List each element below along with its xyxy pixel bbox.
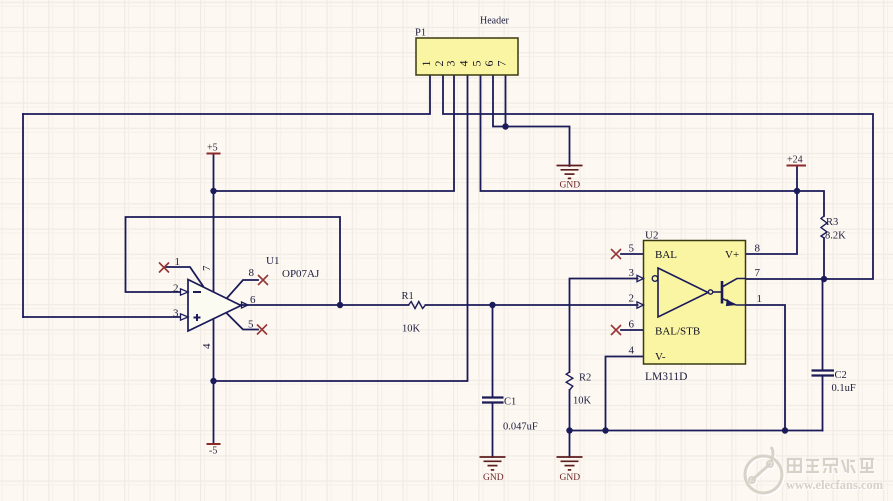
wire +5 stem to U1 pin7 (213, 154, 215, 291)
svg-text:BAL: BAL (655, 249, 677, 261)
svg-text:LM311D: LM311D (645, 371, 687, 383)
junction +5 node (210, 188, 216, 194)
wire left rail vertical (22, 114, 24, 317)
svg-text:GND: GND (483, 473, 504, 483)
svg-text:GND: GND (560, 181, 581, 191)
U1 plus sign (194, 314, 201, 321)
svg-text:P1: P1 (415, 28, 426, 39)
ground GND3 under C1 (480, 457, 506, 470)
svg-text:2: 2 (629, 293, 635, 305)
wire U1 pin1 stub (166, 267, 203, 286)
pin arrow U1.2 (181, 289, 189, 295)
watermark logo elecfans (746, 448, 783, 494)
wire U2 pin4 to bottom rail (606, 357, 644, 431)
svg-text:1: 1 (175, 256, 181, 268)
junction U2 pin1 rail (782, 427, 788, 433)
svg-text:8: 8 (755, 243, 761, 255)
wire +24 stem (796, 166, 798, 191)
svg-text:3: 3 (444, 61, 458, 67)
wire net P1.5 to R3 top / +24 (481, 75, 825, 216)
svg-text:10K: 10K (402, 324, 421, 335)
svg-text:0.047uF: 0.047uF (503, 422, 538, 433)
wire U1 pin4 to -5 bar (213, 320, 215, 444)
wire U1 feedback loop pin2 (126, 217, 341, 305)
wire U1 pin5 stub (226, 313, 258, 330)
resistor R1 10K (402, 291, 426, 335)
junction C1 tap (489, 302, 495, 308)
svg-text:5: 5 (629, 243, 635, 255)
svg-text:C2: C2 (835, 370, 847, 381)
connector P1 Header (415, 16, 518, 76)
svg-text:6: 6 (629, 319, 635, 331)
svg-text:4: 4 (629, 345, 635, 357)
svg-text:5: 5 (248, 319, 254, 331)
svg-text:GND: GND (560, 473, 581, 483)
U1 triangle body (188, 280, 241, 332)
U1 minus sign (193, 291, 201, 293)
P1 body (416, 38, 518, 75)
wire net P1.1 to left rail top (23, 75, 430, 114)
svg-text:V-: V- (655, 351, 666, 363)
svg-text:www.elecfans.com: www.elecfans.com (786, 478, 884, 492)
junction P1.6/7 (502, 123, 508, 129)
svg-text:8.2K: 8.2K (825, 231, 846, 242)
svg-text:8: 8 (249, 267, 255, 279)
capacitor C1 0.047uF (482, 397, 538, 433)
svg-text:R1: R1 (402, 291, 414, 302)
svg-text:7: 7 (201, 265, 213, 271)
junction U1 feedback on output (337, 302, 343, 308)
wire bottom rail (570, 430, 823, 432)
no-connect X U2.5 (611, 249, 621, 259)
wire U2 pin1 down to bottom rail (746, 305, 785, 431)
pin arrow U1.3 (181, 314, 189, 320)
wire C2 bottom to rail (822, 376, 824, 431)
wire net P1.6 (493, 75, 506, 127)
ground GND1 top (557, 166, 583, 179)
pin arrow U2.3 (637, 275, 644, 281)
comparator U2 LM311D (611, 230, 762, 384)
svg-text:1: 1 (757, 293, 763, 305)
wire U2 pin6 stub (621, 329, 644, 331)
wire C1 tap down (492, 305, 494, 397)
svg-text:U1: U1 (266, 255, 279, 267)
svg-text:4: 4 (457, 61, 471, 67)
wire U2 pin8 to +24 node (746, 191, 797, 254)
svg-text:R2: R2 (579, 373, 591, 384)
transistor inside U2 (713, 291, 721, 293)
pin arrow U1.6 output (242, 302, 249, 308)
svg-text:2: 2 (173, 283, 179, 295)
junction U2 pin4 rail (602, 427, 608, 433)
output bubble (708, 290, 712, 294)
svg-text:7: 7 (755, 267, 761, 279)
wire left rail to U1 pin3 (23, 316, 180, 318)
svg-text:6: 6 (250, 294, 256, 306)
wire signal U1 out to R1 (241, 304, 409, 306)
wire C1 bottom to GND3 (492, 403, 494, 458)
svg-text:BAL/STB: BAL/STB (655, 326, 700, 338)
pin arrow U2.2 (637, 302, 644, 308)
no-connect X U1.1 (159, 263, 169, 273)
svg-text:OP07AJ: OP07AJ (282, 268, 320, 280)
svg-text:1: 1 (419, 61, 433, 67)
resistor R3 8.2K (821, 216, 846, 242)
comparator triangle (658, 268, 708, 317)
wire P1.6/7 junction to GND1 (506, 127, 570, 167)
svg-text:Header: Header (480, 16, 510, 27)
svg-text:-5: -5 (209, 446, 217, 457)
junction R3 bottom / pin7 (821, 276, 827, 282)
svg-text:7: 7 (495, 61, 509, 67)
wire U1 pin8 stub (227, 280, 258, 298)
wire U2 pin5 stub (621, 253, 644, 255)
ground GND2 under R2 (557, 457, 583, 470)
wire U2 pin3 to R2 top (570, 279, 638, 373)
svg-text:10K: 10K (573, 396, 592, 407)
power +5 (207, 143, 221, 154)
svg-text:3: 3 (629, 267, 635, 279)
watermark text blocks (786, 459, 885, 493)
wire net P1.2 to U2 pin7 (right loop) (443, 75, 873, 279)
svg-text:0.1uF: 0.1uF (832, 383, 856, 394)
svg-text:+24: +24 (787, 155, 803, 166)
wire C2 top to pin7 net (822, 279, 824, 370)
junction R2 bottom rail (566, 427, 572, 433)
capacitor C2 0.1uF (812, 370, 856, 394)
svg-text:R3: R3 (826, 217, 838, 228)
resistor R2 10K (566, 372, 591, 407)
svg-text:3: 3 (173, 308, 179, 320)
U2 body (644, 241, 746, 365)
inverting bubble input (652, 276, 658, 282)
wire net P1.3 to +5 node (214, 75, 455, 191)
no-connect X U2.6 (611, 325, 621, 335)
svg-text:4: 4 (201, 343, 213, 349)
power -5 (207, 444, 221, 457)
junction +24 node (794, 188, 800, 194)
wire R1 to U2 pin2 (426, 304, 638, 306)
wire net P1.7 (505, 75, 507, 127)
no-connect X U1.5 (257, 325, 267, 335)
wire R3 bottom to pin7 net (823, 238, 825, 279)
svg-text:V+: V+ (725, 249, 739, 261)
junction -5 node (210, 378, 216, 384)
svg-text:+5: +5 (207, 143, 218, 154)
wire R2 bottom to GND2 (569, 390, 571, 457)
no-connect X U1.8 (258, 275, 268, 285)
svg-text:C1: C1 (504, 397, 516, 408)
power +24 (787, 155, 807, 166)
op-amp U1 OP07AJ (159, 255, 320, 349)
svg-text:U2: U2 (645, 230, 658, 242)
wire net P1.4 to -5 node (214, 75, 468, 381)
